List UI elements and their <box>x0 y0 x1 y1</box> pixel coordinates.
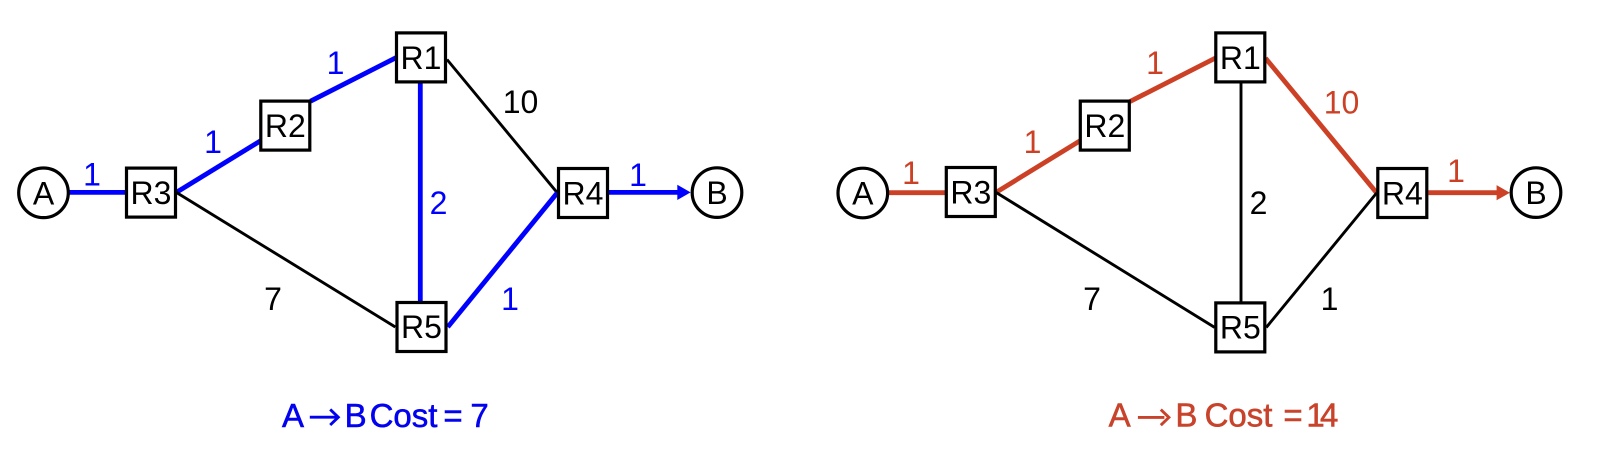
node R3 (box) <box>127 168 176 217</box>
wire R3-R5 (black) <box>996 192 1215 327</box>
svg-text:7: 7 <box>470 397 488 434</box>
svg-text:A: A <box>852 176 874 212</box>
svg-text:B: B <box>1175 397 1197 434</box>
svg-text:=: = <box>443 397 462 434</box>
node R2 right (box) <box>1080 101 1129 150</box>
svg-text:A: A <box>33 175 55 211</box>
node R1 right (box) <box>1216 33 1265 82</box>
wire R3-R5 (black) <box>176 192 395 327</box>
wire R3-R2 (red) <box>996 126 1105 193</box>
svg-text:R1: R1 <box>1220 40 1261 76</box>
node R4 (box) <box>559 169 608 218</box>
node R1 (box) <box>397 33 446 82</box>
svg-text:1: 1 <box>1146 45 1164 81</box>
node R2 (box) <box>261 101 310 150</box>
svg-text:2: 2 <box>1250 185 1268 221</box>
wire R2-R1 (blue) <box>311 57 399 101</box>
wire R5-R4 (blue) <box>448 193 558 327</box>
wire R1-R4 (black) <box>447 60 557 193</box>
svg-text:B: B <box>706 175 727 211</box>
wire R4-B (blue arrow shaft) <box>609 190 680 195</box>
svg-text:2: 2 <box>430 185 448 221</box>
node A (circle) <box>19 168 69 218</box>
svg-text:R3: R3 <box>950 175 991 211</box>
svg-text:R5: R5 <box>401 309 442 345</box>
svg-text:B: B <box>1525 175 1546 211</box>
svg-text:R2: R2 <box>265 108 306 144</box>
svg-text:7: 7 <box>264 281 282 317</box>
svg-text:1: 1 <box>83 156 101 192</box>
svg-text:R2: R2 <box>1084 108 1125 144</box>
svg-text:R5: R5 <box>1220 309 1261 345</box>
svg-text:Cost: Cost <box>370 397 438 434</box>
svg-text:A: A <box>1109 397 1131 434</box>
svg-text:7: 7 <box>1083 281 1101 317</box>
arrowhead into B (blue) <box>677 185 690 200</box>
svg-text:R4: R4 <box>563 176 604 212</box>
svg-text:R4: R4 <box>1382 176 1423 212</box>
wire R3-R2 (blue) <box>176 126 285 193</box>
node R5 (box) <box>397 303 446 352</box>
wire R1-R4 (red) <box>1266 58 1377 193</box>
svg-text:1: 1 <box>501 281 519 317</box>
svg-text:1: 1 <box>1321 281 1339 317</box>
node A right (circle) <box>838 168 888 218</box>
wire A-R3 (red) <box>863 190 971 195</box>
node R5 right (box) <box>1216 303 1265 352</box>
svg-text:1: 1 <box>1447 153 1465 189</box>
wire R1-R5 (black vertical) <box>1240 57 1243 327</box>
svg-text:1: 1 <box>1024 124 1042 160</box>
svg-text:A: A <box>282 397 304 434</box>
node B right (circle) <box>1511 168 1561 218</box>
node R4 right (box) <box>1378 169 1427 218</box>
svg-text:B: B <box>345 397 367 434</box>
caption right: A -> B Cost = 14 (red) <box>1109 397 1339 434</box>
wire R1-R5 (blue vertical) <box>418 57 423 327</box>
svg-text:R3: R3 <box>131 175 172 211</box>
svg-text:R1: R1 <box>401 40 442 76</box>
node R3 right (box) <box>946 168 995 217</box>
svg-text:Cost: Cost <box>1205 397 1273 434</box>
svg-text:1: 1 <box>902 155 920 191</box>
svg-text:10: 10 <box>503 84 539 120</box>
node B (circle) <box>692 168 742 218</box>
wire R4-B (red arrow shaft) <box>1428 190 1499 195</box>
svg-text:4: 4 <box>1320 397 1338 434</box>
arrowhead into B (red) <box>1497 185 1510 200</box>
svg-text:1: 1 <box>629 157 647 193</box>
svg-text:=: = <box>1283 397 1302 434</box>
wire R2-R1 (red) <box>1130 57 1218 102</box>
wire R5-R4 (black) <box>1266 193 1376 327</box>
wire A-R3 (blue) <box>44 190 152 195</box>
svg-text:1: 1 <box>327 45 345 81</box>
svg-text:10: 10 <box>1324 85 1360 121</box>
caption left: A -> B Cost = 7 (blue) <box>282 397 489 434</box>
svg-text:1: 1 <box>204 124 222 160</box>
